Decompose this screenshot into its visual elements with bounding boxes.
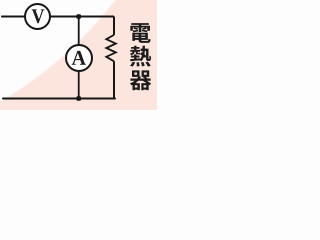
ammeter A1 circle: [66, 45, 92, 71]
label char dian (electric): [130, 23, 150, 43]
wire ammeter down to bottom junction: [78, 71, 80, 99]
wire junction down to ammeter: [78, 17, 80, 46]
node junction top: [76, 14, 81, 19]
wire voltmeter to corner: [50, 16, 114, 18]
wire right vertical top: [113, 17, 115, 35]
ammeter label A: [72, 51, 86, 65]
wire top-left lead: [2, 16, 26, 18]
node junction bottom: [76, 96, 81, 101]
wire bottom: [3, 98, 115, 100]
background pink page corner: [0, 0, 157, 110]
voltmeter V1 circle: [25, 4, 50, 29]
label char qi (device): [130, 70, 151, 90]
wire right vertical bottom: [113, 61, 115, 98]
voltmeter label V: [32, 9, 45, 23]
label char re (heat): [130, 46, 151, 67]
white page area (rounded corner arc): [0, 0, 204, 161]
resistor heater zigzag: [106, 35, 116, 61]
